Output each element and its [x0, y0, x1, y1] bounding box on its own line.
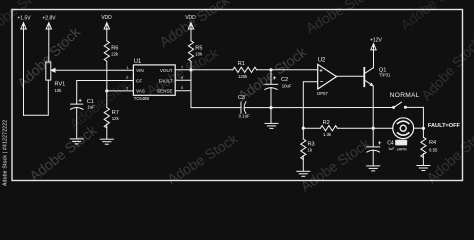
wire switch to R4: [422, 107, 424, 137]
FAULT stub: [175, 79, 191, 81]
wire VAS stub: [107, 90, 134, 92]
switch left contact: [392, 106, 395, 109]
svg-text:VDD: VDD: [101, 15, 112, 21]
ground under C1: [70, 139, 83, 144]
svg-text:5: 5: [181, 86, 183, 90]
capacitor C1: [70, 104, 83, 139]
svg-text:R2: R2: [323, 120, 330, 126]
power arrow +1.5V: [21, 23, 26, 116]
motor M: [393, 118, 414, 139]
resistor R7: [104, 108, 109, 128]
svg-text:NORMAL: NORMAL: [390, 92, 420, 99]
ground under R4: [417, 166, 430, 171]
svg-text:TIP31: TIP31: [379, 73, 391, 78]
junction node R6/VAS/R7: [105, 89, 108, 92]
junction node emitter/R2/C4/motor: [372, 127, 375, 130]
svg-text:Adobe Stock: Adobe Stock: [424, 121, 474, 187]
resistor R1: [233, 67, 257, 72]
svg-text:FAULT: FAULT: [159, 78, 173, 83]
svg-text:3: 3: [126, 86, 128, 90]
svg-text:+88.8: +88.8: [396, 141, 406, 145]
svg-text:22k: 22k: [111, 51, 119, 56]
resistor R6: [104, 41, 109, 61]
svg-text:U1: U1: [134, 59, 142, 65]
resistor R4: [421, 137, 426, 157]
svg-text:C3: C3: [238, 95, 245, 101]
opamp +/-: [319, 69, 324, 86]
svg-text:FAULT=OFF: FAULT=OFF: [428, 123, 461, 129]
svg-text:U2: U2: [318, 58, 326, 64]
resistor R3: [301, 128, 306, 171]
svg-text:1: 1: [127, 66, 129, 70]
capacitor C4: [367, 147, 380, 166]
svg-text:SENSE: SENSE: [157, 89, 173, 94]
opamp output wire: [337, 75, 364, 77]
opamp inverting input wire: [303, 82, 317, 128]
ground under C4: [367, 166, 380, 171]
junction node motor/R4/switch: [422, 127, 425, 130]
svg-text:R1: R1: [238, 61, 245, 67]
svg-text:Adobe Stock: Adobe Stock: [398, 0, 472, 34]
wire R7 to ground: [106, 124, 108, 139]
svg-text:1k: 1k: [308, 148, 313, 153]
svg-text:Adobe Stock: Adobe Stock: [157, 0, 233, 51]
ground under R7: [100, 139, 113, 144]
switch right contact: [404, 106, 407, 109]
potentiometer RV1: [46, 62, 134, 80]
svg-text:Adobe Stock: Adobe Stock: [15, 24, 85, 92]
svg-text:1.3k: 1.3k: [323, 132, 332, 137]
wire R2-node to motor: [373, 127, 392, 129]
svg-text:10k: 10k: [195, 51, 203, 56]
svg-text:±RPM: ±RPM: [397, 147, 407, 151]
power arrow +2.8V: [46, 23, 51, 62]
svg-text:+2.8V: +2.8V: [42, 16, 56, 22]
svg-text:1uF: 1uF: [388, 147, 395, 151]
svg-text:+12V: +12V: [370, 38, 382, 44]
svg-text:10k: 10k: [55, 88, 63, 93]
wire R1 to opamp: [257, 69, 318, 71]
ground under C2: [265, 123, 278, 128]
border frame: [12, 10, 463, 181]
svg-text:2: 2: [126, 76, 128, 80]
switch blade: [394, 102, 424, 107]
svg-text:+: +: [319, 69, 323, 75]
svg-text:OP07: OP07: [317, 91, 329, 96]
junction node R1/C2/opamp: [269, 68, 272, 71]
svg-text:Adobe Stock: Adobe Stock: [419, 34, 474, 104]
wire CF to C1: [77, 81, 134, 105]
power arrow VDD (right): [188, 23, 193, 41]
junction node sense line/C2 leg: [269, 106, 272, 109]
plus signs: [78, 75, 382, 147]
svg-text:Adobe Stock: Adobe Stock: [27, 122, 101, 185]
junction node R5/VOUT: [189, 68, 192, 71]
svg-text:+: +: [273, 75, 277, 82]
svg-text:VDD: VDD: [185, 15, 196, 21]
vertical bus R5/FAULT/SENSE down to sense line: [191, 61, 241, 107]
svg-text:C2: C2: [281, 77, 288, 83]
svg-text:R4: R4: [429, 140, 436, 146]
svg-text:+: +: [78, 97, 82, 104]
wire +1.5V to RV1 bottom: [24, 80, 49, 115]
emitter wire down: [372, 86, 374, 128]
svg-text:0.1uF: 0.1uF: [239, 113, 250, 118]
svg-text:C4: C4: [387, 141, 394, 147]
svg-text:7: 7: [181, 66, 183, 70]
power arrow +12V: [371, 44, 376, 68]
resistor R2: [303, 126, 373, 131]
wire node to C4: [372, 128, 374, 147]
svg-text:Adobe Stock: Adobe Stock: [144, 45, 222, 100]
svg-text:+1.5V: +1.5V: [17, 16, 31, 22]
svg-text:Adobe Stock: Adobe Stock: [303, 0, 381, 37]
C4 display box: [395, 140, 407, 146]
wire R6 to VAS/R7: [106, 61, 108, 107]
wire R4 to ground: [422, 154, 424, 165]
svg-text:Adobe Stock: Adobe Stock: [165, 131, 242, 189]
svg-text:R3: R3: [308, 142, 315, 148]
svg-text:−: −: [320, 80, 324, 86]
svg-text:RV1: RV1: [55, 82, 66, 88]
VOUT wire to R1: [175, 69, 233, 71]
SENSE stub: [175, 90, 191, 92]
svg-text:10uF: 10uF: [282, 83, 292, 88]
svg-text:VOUT: VOUT: [160, 68, 173, 73]
svg-text:Adobe Stock | #412272222: Adobe Stock | #412272222: [2, 120, 8, 186]
svg-text:0.55: 0.55: [429, 148, 438, 153]
svg-text:VAS: VAS: [136, 89, 145, 94]
resistor R5: [188, 41, 193, 61]
svg-text:VIN: VIN: [136, 68, 144, 73]
op-amp U2: [318, 64, 337, 89]
svg-text:120k: 120k: [238, 74, 248, 79]
svg-text:TC648B: TC648B: [134, 96, 150, 101]
wire motor to R4 line: [414, 127, 424, 129]
svg-text:CF: CF: [136, 78, 142, 83]
labels: [17, 15, 382, 44]
ground under R3: [297, 171, 310, 176]
svg-text:12k: 12k: [112, 116, 120, 121]
svg-text:+: +: [378, 140, 382, 147]
sense line to switch: [271, 107, 394, 109]
capacitor C2: [265, 70, 278, 123]
transistor Q1: [364, 68, 373, 87]
capacitor C3: [241, 102, 271, 114]
IC U1 box: [133, 65, 175, 95]
svg-text:1uF: 1uF: [87, 105, 95, 110]
power arrow VDD (left): [104, 23, 109, 41]
svg-text:8: 8: [181, 76, 183, 80]
junction node R2/R3/opamp inverting: [302, 127, 305, 130]
